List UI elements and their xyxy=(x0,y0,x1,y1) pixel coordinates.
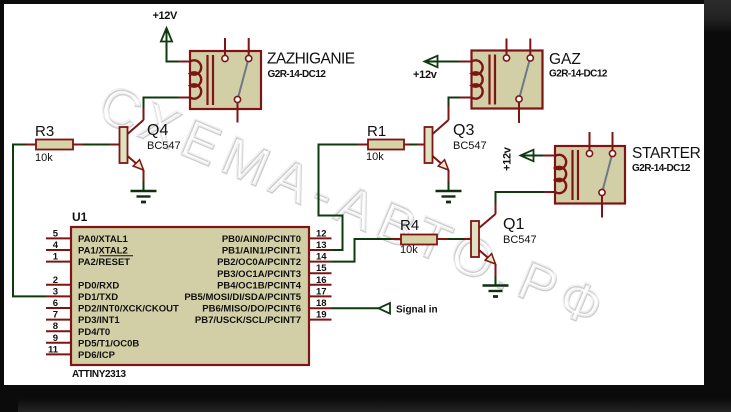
coil xyxy=(190,60,201,98)
svg-text:G2R-14-DC12: G2R-14-DC12 xyxy=(268,69,327,80)
svg-text:10k: 10k xyxy=(35,152,53,164)
svg-text:R4: R4 xyxy=(400,217,419,234)
IC U1 ATTINY2313 xyxy=(71,210,309,380)
svg-text:ATTINY2313: ATTINY2313 xyxy=(72,369,126,380)
ground Q3 xyxy=(436,191,462,202)
wire pin3 PD1/TXD to R3 xyxy=(13,145,46,297)
terminal Signal in xyxy=(309,303,438,316)
core xyxy=(206,55,208,105)
svg-text:PB6/MISO/DO/PCINT6: PB6/MISO/DO/PCINT6 xyxy=(202,304,301,315)
svg-text:U1: U1 xyxy=(72,210,88,224)
U1 right pin numbers xyxy=(316,228,327,320)
power +12v terminal 3 xyxy=(502,146,556,171)
svg-text:1: 1 xyxy=(53,252,59,263)
svg-text:PD2/INT0/XCK/CKOUT: PD2/INT0/XCK/CKOUT xyxy=(78,304,179,315)
pins xyxy=(224,38,226,56)
ground Q4 xyxy=(131,191,157,202)
svg-text:PA2/RESET: PA2/RESET xyxy=(78,257,130,268)
svg-text:19: 19 xyxy=(316,310,327,321)
relay RL3 STARTER xyxy=(555,132,701,218)
svg-text:BC547: BC547 xyxy=(453,140,487,152)
wire Q3 emitter to ground xyxy=(448,170,450,191)
ground Q1 xyxy=(483,286,509,297)
svg-text:+12V: +12V xyxy=(153,10,178,22)
wire Q3 collector to GAZ coil xyxy=(449,98,472,121)
svg-text:+12v: +12v xyxy=(413,69,438,81)
svg-text:12: 12 xyxy=(316,228,327,239)
svg-text:11: 11 xyxy=(48,344,59,355)
U1 left pin numbers xyxy=(48,228,59,355)
svg-text:8: 8 xyxy=(53,321,58,332)
svg-text:STARTER: STARTER xyxy=(632,145,701,162)
relay RL1 ZAZHIGANIE xyxy=(190,38,355,123)
svg-text:16: 16 xyxy=(316,275,327,286)
wire Q1 collector to STARTER coil xyxy=(496,192,556,214)
wire R1 to pin13 PB1 xyxy=(309,145,368,251)
watermark СХЕМА-АВТО.РФ xyxy=(90,73,620,342)
svg-text:15: 15 xyxy=(316,263,327,274)
svg-text:G2R-14-DC12: G2R-14-DC12 xyxy=(632,163,691,174)
svg-text:9: 9 xyxy=(53,333,58,344)
svg-text:PB0/AIN0/PCINT0: PB0/AIN0/PCINT0 xyxy=(222,234,301,245)
svg-text:PD0/RXD: PD0/RXD xyxy=(78,280,119,291)
svg-text:14: 14 xyxy=(316,252,327,263)
U1 right pin labels xyxy=(184,234,301,326)
svg-text:BC547: BC547 xyxy=(147,140,181,152)
svg-text:PB4/OC1B/PCINT4: PB4/OC1B/PCINT4 xyxy=(217,280,302,291)
svg-text:GAZ: GAZ xyxy=(549,51,581,68)
wire Q1 emitter to ground xyxy=(495,264,497,286)
resistor R4 xyxy=(400,217,471,256)
U1 left pin labels xyxy=(78,234,179,361)
svg-text:PD5/T1/OC0B: PD5/T1/OC0B xyxy=(78,338,139,349)
resistor R1 xyxy=(366,123,425,163)
svg-text:G2R-14-DC12: G2R-14-DC12 xyxy=(549,69,608,80)
svg-text:Q4: Q4 xyxy=(147,122,168,139)
power +12v terminal 2 xyxy=(413,56,472,81)
svg-text:PD4/T0: PD4/T0 xyxy=(78,327,110,338)
svg-text:PB1/AIN1/PCINT1: PB1/AIN1/PCINT1 xyxy=(222,246,302,257)
svg-text:+12v: +12v xyxy=(502,146,514,171)
svg-text:10k: 10k xyxy=(366,151,384,163)
svg-text:PB5/MOSI/DI/SDA/PCINT5: PB5/MOSI/DI/SDA/PCINT5 xyxy=(184,292,301,303)
U1 left pin stubs xyxy=(46,238,71,354)
svg-text:6: 6 xyxy=(53,298,58,309)
resistor R3 xyxy=(35,123,120,164)
svg-text:BC547: BC547 xyxy=(503,234,537,246)
svg-text:PD1/TXD: PD1/TXD xyxy=(78,292,118,303)
svg-text:Signal in: Signal in xyxy=(396,305,438,316)
transistor Q3 xyxy=(425,120,487,170)
U1 right pin stubs xyxy=(309,238,332,319)
svg-text:13: 13 xyxy=(316,240,327,251)
svg-text:3: 3 xyxy=(53,286,58,297)
svg-text:18: 18 xyxy=(316,298,327,309)
wire Q4 emitter to ground xyxy=(143,170,145,191)
svg-text:PB2/OC0A/PCINT2: PB2/OC0A/PCINT2 xyxy=(217,257,301,268)
svg-text:PA0/XTAL1: PA0/XTAL1 xyxy=(78,234,129,245)
svg-text:7: 7 xyxy=(53,310,58,321)
wire Q4 collector to relay coil xyxy=(144,98,191,121)
svg-text:Q3: Q3 xyxy=(453,122,474,139)
svg-text:PB7/USCK/SCL/PCINT7: PB7/USCK/SCL/PCINT7 xyxy=(195,315,301,326)
svg-text:2: 2 xyxy=(53,275,58,286)
svg-text:PB3/OC1A/PCINT3: PB3/OC1A/PCINT3 xyxy=(217,269,301,280)
relay RL2 GAZ xyxy=(472,39,608,124)
wire pin14 PB2 to R4 xyxy=(309,239,401,262)
svg-text:17: 17 xyxy=(316,286,327,297)
svg-text:10k: 10k xyxy=(400,244,418,256)
svg-text:R3: R3 xyxy=(35,123,54,140)
power +12V terminal 1 xyxy=(153,10,191,62)
svg-text:PA1/XTAL2: PA1/XTAL2 xyxy=(78,246,128,257)
svg-text:5: 5 xyxy=(53,228,59,239)
svg-text:ZAZHIGANIE: ZAZHIGANIE xyxy=(267,51,355,68)
switch xyxy=(238,61,248,97)
svg-text:PD3/INT1: PD3/INT1 xyxy=(78,315,120,326)
svg-text:Q1: Q1 xyxy=(503,216,524,233)
svg-text:4: 4 xyxy=(53,240,59,251)
svg-text:R1: R1 xyxy=(367,123,386,140)
transistor Q4 xyxy=(120,120,181,170)
svg-text:PD6/ICP: PD6/ICP xyxy=(78,350,116,361)
transistor Q1 xyxy=(471,214,537,264)
